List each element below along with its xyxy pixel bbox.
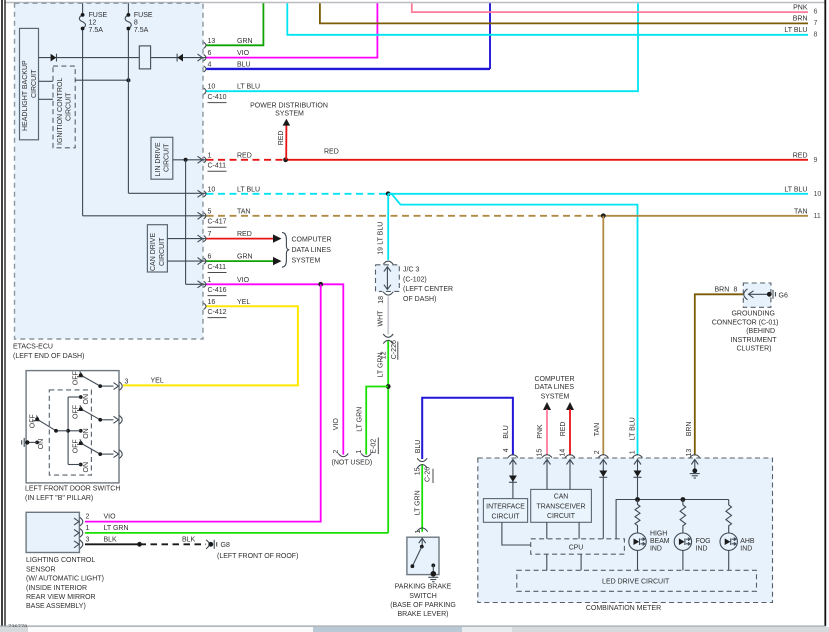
resistor R3 (AHB) (726, 500, 732, 534)
svg-text:8: 8 (134, 20, 138, 27)
svg-text:6: 6 (814, 9, 818, 16)
LED rail wire (616, 500, 729, 539)
svg-text:RED: RED (560, 422, 567, 437)
wire BRN grounding connector to meter pin 13 (695, 294, 744, 455)
bottom scrollbar track (0, 627, 829, 632)
wire VIO branch down to lighting control sensor (85, 284, 321, 521)
connector code C-412 (208, 309, 227, 318)
parking brake pin arc (417, 528, 428, 532)
svg-text:IND: IND (650, 546, 662, 553)
svg-text:(BASE OF PARKING: (BASE OF PARKING (390, 602, 456, 609)
meter pin labels rotated (503, 417, 693, 456)
grounding connector internal arrow (749, 291, 769, 298)
connector code C-226 (391, 340, 398, 360)
right edge label LT BLU 10 (784, 187, 821, 198)
svg-text:1: 1 (356, 450, 363, 454)
svg-text:5: 5 (208, 208, 212, 215)
door switch caption (25, 485, 120, 502)
wire PNK meter pin 15 (546, 409, 548, 456)
fuse 12 symbol (79, 12, 107, 34)
svg-text:1: 1 (208, 152, 212, 159)
svg-text:C-412: C-412 (208, 309, 227, 316)
grounding connector G6 terminal (767, 290, 788, 300)
svg-text:BLK: BLK (182, 536, 196, 543)
bottom scrollbar segment light (462, 627, 512, 632)
svg-text:SYSTEM: SYSTEM (292, 258, 321, 265)
page frame bottom rule (0, 625, 825, 627)
wire CPU to LED drive right (580, 554, 582, 570)
computer data lines system caption (left) (292, 237, 332, 265)
arrow to power distribution system (283, 119, 291, 126)
svg-text:TAN: TAN (594, 423, 601, 436)
lighting control sensor box (26, 512, 79, 552)
LED fog indicator (674, 533, 691, 550)
svg-text:HEADLIGHT BACKUP: HEADLIGHT BACKUP (22, 60, 29, 131)
meter internal ground below pin 13 (690, 460, 700, 479)
parking brake switch box (407, 537, 439, 574)
ECU pin numbers (208, 38, 216, 306)
wire BLU pin 4 (207, 68, 491, 70)
svg-text:OFF: OFF (72, 439, 79, 453)
wire LIN junction down to pin 1 VIO (186, 160, 207, 284)
svg-text:13: 13 (208, 38, 216, 45)
CAN transceiver circuit box (531, 489, 592, 522)
svg-text:2: 2 (86, 514, 90, 521)
grounding connector caption (712, 311, 779, 353)
resistor R1 (high beam) (635, 500, 640, 534)
meter internal wire pin 15 (546, 460, 548, 490)
arrow RED to computer data lines (566, 402, 574, 410)
svg-text:16: 16 (208, 299, 216, 306)
wire LT BLU branch diagonal to combination meter column (388, 194, 637, 456)
svg-text:DATA LINES: DATA LINES (535, 384, 575, 391)
svg-text:6: 6 (208, 50, 212, 57)
svg-text:PARKING BRAKE: PARKING BRAKE (395, 584, 452, 591)
switch common rail (67, 397, 69, 465)
wire VIO pin 1 C-416 (207, 284, 344, 454)
wire LT GRN branch to E-02 not used (366, 387, 388, 455)
wire BLU combination meter pin 4 loop (422, 398, 513, 459)
svg-text:CPU: CPU (569, 544, 584, 551)
wire LT BLU to pin 8 right (287, 3, 808, 35)
svg-text:CONNECTOR (C-01): CONNECTOR (C-01) (712, 319, 779, 326)
J/C 3 junction connector box (376, 265, 400, 292)
svg-text:18: 18 (378, 296, 385, 304)
power distribution system caption (250, 103, 328, 118)
svg-text:OFF: OFF (30, 414, 37, 428)
ignition control circuit dashed box (53, 66, 75, 148)
svg-text:GROUNDING: GROUNDING (731, 311, 775, 318)
svg-text:ETACS-ECU: ETACS-ECU (13, 344, 53, 351)
svg-text:G6: G6 (779, 292, 788, 299)
junction RED power feed (283, 157, 288, 162)
svg-text:VIO: VIO (333, 418, 340, 431)
svg-text:C-26: C-26 (425, 467, 432, 482)
svg-text:10: 10 (208, 186, 216, 193)
page frame top border (5, 2, 826, 4)
junction LT BLU (386, 191, 391, 196)
meter internal wire pin 2 (602, 460, 604, 539)
wire headlight box to ignition box stub 2 (39, 98, 54, 100)
diode D1 (51, 54, 57, 62)
door switch pin chevrons (114, 383, 119, 458)
svg-text:AHB: AHB (740, 538, 755, 545)
wire headlight output to pin 6 (39, 57, 208, 59)
wire fog LED to LED drive (682, 550, 684, 570)
svg-text:(LEFT FRONT OF ROOF): (LEFT FRONT OF ROOF) (217, 553, 298, 560)
svg-text:10: 10 (208, 84, 216, 91)
svg-text:2: 2 (333, 450, 340, 454)
svg-text:FUSE: FUSE (134, 12, 153, 19)
wire LT BLU pin 10 C-410 (207, 3, 639, 91)
svg-text:GRN: GRN (237, 38, 253, 45)
right edge label RED 9 (793, 153, 818, 164)
svg-text:LT GRN: LT GRN (104, 525, 129, 532)
diode D3 below pin 4 (509, 476, 517, 483)
svg-text:BLK: BLK (104, 536, 118, 543)
resistor R2 (fog) (680, 500, 686, 534)
svg-text:7: 7 (208, 231, 212, 238)
LIN drive circuit box (151, 137, 173, 179)
wire CAN box to CPU left (546, 522, 548, 539)
svg-text:12: 12 (89, 20, 97, 27)
switch S3 (bottom) (68, 439, 113, 472)
wire YEL pin 16 to door switch (123, 306, 298, 385)
wire LT GRN C-26 to parking brake switch (421, 465, 423, 532)
svg-text:8: 8 (814, 32, 818, 39)
svg-text:SYSTEM: SYSTEM (275, 110, 304, 117)
wire BLK dashed segment to G8 (140, 543, 207, 545)
switch S2 (middle) (68, 405, 113, 439)
connector code C-416 (208, 287, 227, 296)
svg-text:G8: G8 (221, 542, 230, 549)
fuse 12 feed wire (83, 3, 207, 216)
svg-text:CIRCUIT: CIRCUIT (159, 237, 166, 266)
connector code C-411 (208, 163, 227, 172)
svg-text:RED: RED (237, 152, 252, 159)
svg-text:(IN LEFT "B" PILLAR): (IN LEFT "B" PILLAR) (25, 495, 93, 502)
svg-text:CLUSTER): CLUSTER) (736, 346, 771, 353)
door switch pin arcs (119, 382, 122, 459)
bottom scrollbar segment (313, 627, 462, 632)
svg-text:LT GRN: LT GRN (415, 490, 422, 515)
svg-text:BLU: BLU (237, 61, 251, 68)
svg-text:FUSE: FUSE (89, 12, 108, 19)
switch S4 (left, door ajar) (26, 414, 68, 449)
ETACS-ECU dashed border (15, 3, 204, 339)
LED high beam indicator (629, 533, 646, 550)
svg-text:1: 1 (86, 525, 90, 532)
svg-text:COMPUTER: COMPUTER (292, 237, 332, 244)
door switch inner dashed box (49, 390, 91, 475)
wire LT BLU solid to right edge (388, 193, 808, 195)
wire LT GRN to lighting control sensor pin 1 (85, 532, 388, 534)
svg-text:14: 14 (559, 449, 566, 457)
wire LT GRN C-226 down (387, 341, 389, 533)
J/C 3 internal double arrow (384, 267, 391, 290)
LED drive circuit dashed box (517, 570, 757, 591)
svg-text:(LEFT END OF DASH): (LEFT END OF DASH) (13, 353, 84, 360)
wire CAN box to CPU right (578, 522, 580, 539)
svg-text:C-417: C-417 (208, 219, 227, 226)
svg-text:RED: RED (237, 231, 252, 238)
connector arc LT GRN end (361, 453, 371, 456)
parking brake pin chevron (419, 538, 426, 543)
svg-text:8: 8 (734, 286, 738, 293)
svg-text:BEAM: BEAM (650, 538, 670, 545)
arrow PNK to computer data lines (543, 402, 551, 410)
svg-text:WHT: WHT (377, 310, 384, 327)
wire TAN down to combination meter pin 2 (602, 216, 604, 456)
svg-text:BASE ASSEMBLY): BASE ASSEMBLY) (26, 603, 86, 610)
svg-text:IND: IND (740, 546, 752, 553)
svg-text:(NOT USED): (NOT USED) (332, 460, 373, 467)
wire RED pin 1 dashed segment (207, 159, 286, 161)
CPU dashed box (531, 539, 625, 554)
svg-text:CIRCUIT: CIRCUIT (163, 143, 170, 172)
svg-text:CIRCUIT: CIRCUIT (65, 92, 72, 121)
wire WHT J/C3 to C-226 (387, 297, 389, 335)
svg-text:3: 3 (86, 536, 90, 543)
svg-text:19: 19 (377, 247, 384, 255)
junction TAN (601, 213, 606, 218)
svg-text:TAN: TAN (237, 208, 250, 215)
svg-text:11: 11 (814, 213, 821, 220)
svg-text:LT BLU: LT BLU (784, 27, 807, 34)
meter pin chevrons (509, 460, 698, 465)
parking brake caption (390, 584, 456, 619)
grounding connector entry arc (744, 289, 748, 300)
svg-text:PNK: PNK (537, 424, 544, 439)
svg-text:C-411: C-411 (208, 163, 227, 170)
wire BRN to pin 7 right (320, 3, 808, 23)
bottom scrollbar thumb (28, 627, 313, 632)
LED labels (650, 531, 755, 553)
junction rail / left switch (66, 429, 70, 433)
right edge label TAN 11 (794, 209, 821, 220)
svg-text:1: 1 (629, 450, 636, 454)
junction ignition/fuse8 (126, 78, 130, 82)
svg-text:6: 6 (208, 254, 212, 261)
svg-text:LT BLU: LT BLU (237, 186, 260, 193)
svg-text:POWER DISTRIBUTION: POWER DISTRIBUTION (250, 103, 328, 110)
svg-text:C-226: C-226 (391, 340, 398, 359)
parking brake switch contacts (411, 545, 436, 572)
svg-text:SWITCH: SWITCH (409, 593, 437, 600)
wire GRN pin 6 to computer data lines (207, 260, 281, 262)
ETACS-ECU caption (13, 344, 84, 361)
svg-text:15: 15 (536, 449, 543, 457)
svg-text:PNK: PNK (793, 4, 808, 11)
svg-text:OFF: OFF (72, 405, 79, 419)
svg-text:DATA LINES: DATA LINES (292, 247, 332, 254)
diode D5 below pin 1 (634, 471, 642, 478)
connector arcs below J/C 3 (383, 292, 393, 295)
door switch case ground (22, 438, 30, 447)
right edge label PNK 6 (793, 4, 817, 15)
svg-text:ON: ON (83, 394, 90, 405)
svg-text:BRAKE LEVER): BRAKE LEVER) (398, 611, 449, 618)
svg-text:4: 4 (503, 448, 510, 452)
wire ignition box to fuse 8 line (75, 79, 128, 81)
meter internal wire pin 14 (569, 460, 571, 490)
junction rail FOG (681, 497, 686, 502)
wire CAN drive to pin 7 (167, 238, 207, 240)
svg-text:IGNITION CONTROL: IGNITION CONTROL (57, 78, 64, 145)
svg-text:7.5A: 7.5A (89, 27, 104, 34)
wire TAN solid to right edge (603, 215, 808, 217)
svg-text:INTERFACE: INTERFACE (486, 504, 525, 511)
svg-text:VIO: VIO (237, 50, 250, 57)
junction BLK splice (137, 542, 142, 547)
wire TAN pin 5 dashed segment (207, 215, 604, 217)
svg-text:ON: ON (83, 462, 90, 473)
interface circuit box (483, 499, 527, 523)
page frame right border (824, 0, 826, 626)
svg-text:RED: RED (793, 153, 808, 160)
wire AHB LED to LED drive (728, 550, 730, 570)
diode D4 below pin 2 (599, 471, 607, 478)
arrowhead pin 6 (273, 257, 282, 265)
wire high beam LED to LED drive (637, 550, 639, 570)
wire headlight box to ignition box stub 1 (39, 80, 54, 82)
switch S1 (top) (68, 371, 113, 404)
svg-text:ON: ON (83, 428, 90, 439)
svg-text:(LEFT CENTER: (LEFT CENTER (403, 286, 453, 293)
svg-text:9: 9 (814, 157, 818, 164)
svg-text:LEFT FRONT DOOR SWITCH: LEFT FRONT DOOR SWITCH (25, 485, 120, 492)
wire LT BLU pin 10 dashed segment (207, 193, 389, 195)
junction LT GRN (386, 384, 391, 389)
svg-text:LT BLU: LT BLU (377, 222, 384, 245)
svg-text:15: 15 (414, 467, 421, 475)
wire GRN pin 13 (207, 3, 264, 45)
junction VIO (318, 282, 323, 287)
diode D2 (177, 54, 183, 62)
connector C-226 arcs (383, 334, 393, 337)
svg-text:TRANSCEIVER: TRANSCEIVER (536, 503, 585, 510)
sensor pin arcs (80, 517, 83, 548)
svg-text:BRN: BRN (715, 286, 730, 293)
meter pin arcs (508, 455, 700, 458)
svg-text:4: 4 (208, 61, 212, 68)
sensor pin chevrons (74, 518, 79, 548)
svg-text:BLU: BLU (503, 425, 510, 439)
svg-text:SYSTEM: SYSTEM (541, 393, 570, 400)
svg-text:IND: IND (696, 546, 708, 553)
right edge label BRN 7 (793, 16, 818, 27)
connector code C-411 (pins 7/6) (208, 264, 227, 273)
svg-text:(W/ AUTOMATIC LIGHT): (W/ AUTOMATIC LIGHT) (26, 576, 104, 583)
meter internal wire pin 4 (512, 460, 514, 499)
svg-text:REAR VIEW MIRROR: REAR VIEW MIRROR (26, 594, 96, 601)
parking brake ground (428, 571, 438, 582)
junction LIN drive (184, 158, 188, 162)
svg-text:COMBINATION METER: COMBINATION METER (586, 605, 661, 612)
left front door switch box (26, 371, 119, 483)
meter internal wire pin 1 (637, 460, 639, 500)
svg-text:J/C 3: J/C 3 (403, 267, 419, 274)
svg-text:CAN DRIVE: CAN DRIVE (150, 233, 157, 271)
wire LIN drive to pin 1 RED (173, 159, 207, 161)
connector code C-410 (208, 94, 227, 103)
svg-text:RED: RED (324, 149, 339, 156)
svg-text:3: 3 (125, 379, 129, 386)
J/C 3 caption (403, 267, 453, 303)
wire RED pin 7 to computer data lines (207, 238, 281, 240)
svg-text:BRN: BRN (686, 422, 693, 437)
svg-text:RED: RED (278, 131, 285, 146)
wire CAN drive to pin 6 (167, 260, 207, 262)
svg-text:LT BLU: LT BLU (784, 187, 807, 194)
svg-text:7: 7 (814, 20, 818, 27)
ECU wire colour labels (237, 38, 260, 306)
svg-text:10: 10 (814, 191, 822, 198)
svg-text:(INSIDE INTERIOR: (INSIDE INTERIOR (26, 585, 87, 592)
wire VIO pin 6 (207, 3, 378, 57)
connector code C-417 (208, 219, 227, 228)
grounding connector C-01 box (743, 283, 771, 307)
svg-text:LT BLU: LT BLU (237, 84, 260, 91)
svg-text:VIO: VIO (237, 277, 250, 284)
svg-text:ON: ON (38, 439, 45, 450)
svg-text:TAN: TAN (794, 209, 807, 216)
svg-text:HIGH: HIGH (650, 531, 667, 538)
svg-text:(BEHIND: (BEHIND (746, 328, 775, 335)
connector C-26 arcs (417, 458, 427, 461)
brace computer data lines (282, 232, 289, 267)
connector code E-02 (371, 438, 379, 455)
relay element box on wire (139, 46, 150, 69)
svg-text:GRN: GRN (237, 254, 253, 261)
svg-text:COMPUTER: COMPUTER (534, 376, 574, 383)
wire LT BLU branch down to J/C 3 (387, 194, 389, 260)
arrowhead pin 7 (273, 234, 282, 242)
wire interface to CPU (502, 522, 531, 545)
svg-text:C-410: C-410 (208, 94, 227, 101)
svg-text:LT BLU: LT BLU (629, 417, 636, 440)
svg-text:YEL: YEL (151, 378, 164, 385)
wire PNK to pin 6 right (412, 3, 808, 12)
wire RED meter pin 14 (569, 409, 571, 456)
lighting control sensor caption (26, 557, 104, 610)
svg-text:LIGHTING CONTROL: LIGHTING CONTROL (26, 557, 95, 564)
svg-text:BLU: BLU (415, 440, 422, 454)
svg-text:1: 1 (208, 277, 212, 284)
junction rail pin 1 (635, 497, 640, 502)
svg-text:OFF: OFF (72, 371, 79, 385)
svg-text:BRN: BRN (793, 16, 808, 23)
ground G8 (206, 540, 298, 560)
svg-text:CIRCUIT: CIRCUIT (547, 513, 576, 520)
svg-text:CIRCUIT: CIRCUIT (31, 69, 38, 98)
svg-text:SENSOR: SENSOR (26, 566, 56, 573)
ETACS-ECU block fill (15, 3, 204, 339)
svg-text:VIO: VIO (104, 514, 117, 521)
svg-text:LED DRIVE CIRCUIT: LED DRIVE CIRCUIT (602, 578, 670, 585)
svg-text:7.5A: 7.5A (134, 27, 149, 34)
connector arcs above J/C 3 (383, 261, 393, 264)
fuse 8 feed wire (128, 3, 207, 193)
svg-text:(C-102): (C-102) (403, 276, 427, 283)
svg-text:LT GRN: LT GRN (356, 407, 363, 432)
svg-text:LIN DRIVE: LIN DRIVE (155, 142, 162, 177)
svg-text:FOG: FOG (696, 538, 711, 545)
svg-text:2: 2 (594, 450, 601, 454)
wire BLK solid segment (85, 543, 140, 545)
CAN drive circuit box (147, 225, 167, 272)
svg-text:INSTRUMENT: INSTRUMENT (731, 337, 778, 344)
